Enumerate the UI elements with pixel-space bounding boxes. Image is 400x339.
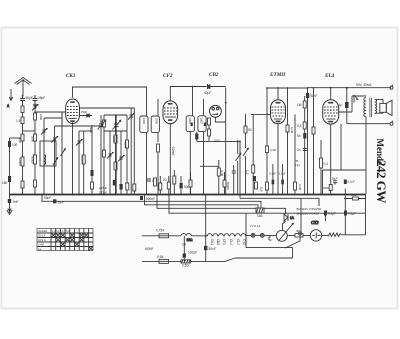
capacitor 100pF (8, 141, 18, 147)
svg-text:10000: 10000 (18, 158, 22, 166)
junction dots top (22, 86, 332, 237)
resistor m13 (133, 176, 136, 195)
svg-text:50000: 50000 (226, 182, 230, 190)
wire EFM11 down (277, 124, 279, 195)
tube CK1 (66, 73, 80, 124)
wire heater to lamps (246, 234, 276, 236)
capacitor c273 (272, 164, 275, 195)
fuse 0,5A (157, 255, 169, 263)
bus junction dots (22, 194, 332, 196)
svg-text:1M: 1M (297, 103, 302, 107)
connector 7AB (256, 208, 264, 218)
wire lower mains (142, 213, 293, 261)
242 GW model (374, 160, 389, 203)
svg-text:CK1: CK1 (66, 73, 76, 79)
capacitor dark m10 (99, 180, 116, 195)
svg-text:CL4: CL4 (236, 239, 240, 245)
svg-text:25pF: 25pF (81, 110, 87, 114)
band filter can left (40, 141, 56, 166)
variable cap gang 1 (98, 115, 106, 195)
svg-text:30000: 30000 (31, 156, 35, 164)
wire sub-bus 4 (169, 195, 366, 214)
resistor m21 (217, 160, 220, 195)
svg-text:0,2M: 0,2M (220, 170, 224, 177)
trimmer m8 (118, 156, 124, 162)
svg-text:37Ω: 37Ω (214, 139, 221, 143)
variable cap gang 2 (113, 115, 121, 195)
small lamp (269, 235, 272, 240)
capacitor 5nF dark (91, 170, 94, 176)
svg-text:252: 252 (352, 193, 357, 197)
label 12mA (171, 147, 175, 156)
svg-text:0,3: 0,3 (259, 187, 263, 192)
svg-text:EL4: EL4 (324, 73, 335, 79)
svg-text:TB: TB (295, 159, 299, 163)
resistor 1M at 304.7 (297, 96, 306, 195)
speaker (380, 99, 392, 115)
capacitor 0,1uF mid (204, 236, 216, 262)
svg-text:25pF: 25pF (38, 96, 45, 100)
svg-text:ETMII: ETMII (269, 72, 286, 78)
svg-text:50: 50 (163, 178, 167, 182)
wire vert 307.5 (307, 88, 309, 195)
trimmer m4 (107, 153, 113, 159)
capacitor 50pF antenna (20, 96, 33, 105)
fuse 0,75A (156, 229, 169, 238)
resistor 0,5 ohm lower (181, 260, 191, 268)
svg-text:90pF: 90pF (204, 91, 211, 95)
svg-text:1,75μF: 1,75μF (99, 191, 108, 195)
svg-text:1000: 1000 (200, 118, 204, 124)
wire left horizontals (10, 112, 93, 138)
resistor cluster m2 (103, 150, 106, 157)
svg-text:200Ω: 200Ω (323, 186, 330, 190)
capacitor c281 (281, 164, 284, 195)
rectifier CY2 (310, 220, 321, 241)
svg-text:1 2 3 4 5 6 7 8 9: 1 2 3 4 5 6 7 8 9 (52, 230, 70, 233)
svg-text:100: 100 (12, 143, 18, 147)
label 50nF on bus (44, 196, 155, 201)
terminal TA (299, 232, 302, 235)
resistor 0,1M beside CB2 (208, 118, 211, 125)
trimmer left3 (52, 137, 58, 143)
resistor 10000 a (21, 157, 24, 166)
switch near transformer (354, 95, 358, 103)
IF transformer 2 (186, 99, 206, 195)
output transformer (364, 98, 383, 170)
cathode resistor EL4 (320, 140, 329, 195)
wire TA diagonal (285, 198, 301, 248)
main ground bus (10, 194, 366, 196)
tube EFM11 (269, 72, 286, 124)
wire CF2 top loop with 90pF (170, 87, 225, 105)
resistor m17 (163, 176, 170, 195)
resistor 0,1 at 315 (312, 88, 315, 195)
wire rectifier column (240, 189, 345, 235)
label 60W (145, 247, 153, 251)
junction dot top right (346, 87, 348, 89)
antenna (15, 78, 32, 97)
resistor 252 top right (344, 180, 366, 201)
resistor r256 (255, 182, 258, 189)
resistor 50000 (82, 155, 85, 164)
mains text Bei 110V (297, 207, 322, 215)
svg-text:4,75μF: 4,75μF (99, 186, 108, 190)
svg-text:0,3: 0,3 (297, 124, 302, 128)
svg-text:L=49: L=49 (38, 243, 44, 247)
svg-text:180: 180 (2, 181, 8, 185)
wire vert 295 (294, 114, 296, 194)
capacitor dark m24 (253, 176, 256, 181)
resistor 1000 b (21, 181, 24, 188)
wire CB2 down (215, 88, 225, 195)
label 7V 0,1A (250, 224, 260, 228)
wire drop to mains transformer (205, 195, 207, 236)
capacitor m23 (232, 165, 236, 195)
svg-text:0,3M: 0,3M (270, 148, 277, 152)
wire can vertical 341 (340, 124, 342, 170)
capacitor C4 100uF (182, 236, 197, 262)
heater chain tube labels (210, 239, 246, 245)
wire under speaker (347, 123, 390, 125)
wire CK1 plate top loop (73, 87, 147, 104)
capacitor dark m19 (180, 176, 190, 195)
resistor 0,3M upper (266, 146, 277, 153)
resistor m15 (154, 178, 157, 186)
wire B+ feed (323, 170, 367, 195)
capacitor 90pF series (204, 84, 211, 95)
svg-text:90V, 30mA: 90V, 30mA (356, 83, 372, 87)
svg-text:1,5: 1,5 (16, 119, 21, 123)
terminal C top (390, 85, 393, 90)
tube CF2 (163, 73, 178, 124)
svg-text:1000: 1000 (101, 121, 105, 127)
capacitor 25pF (33, 95, 46, 107)
svg-text:0,1μF: 0,1μF (348, 212, 356, 216)
label 37ohm (214, 139, 221, 143)
pilot lamp 2 (260, 234, 264, 238)
capacitor 0,1u dark left (195, 132, 198, 142)
svg-text:5nF: 5nF (13, 200, 19, 204)
resistor at 295 (294, 182, 297, 190)
choke after CY2 (322, 233, 366, 237)
svg-text:2n: 2n (297, 148, 301, 152)
svg-text:50nF: 50nF (209, 247, 216, 251)
resistor m16 (159, 176, 162, 195)
value labels texture (18, 114, 302, 191)
capacitor 180pF (2, 176, 11, 185)
resistor 50ohm (244, 126, 252, 133)
wire ETM grid line (251, 114, 271, 194)
terminal C bottom (390, 121, 393, 126)
svg-text:242 GW: 242 GW (374, 160, 389, 203)
svg-text:0,5Ω: 0,5Ω (182, 263, 189, 267)
resistor cluster m5 (114, 135, 117, 143)
resistor 1000 d (34, 180, 37, 187)
svg-text:50000: 50000 (81, 156, 85, 164)
wire CF2 cathode down (169, 124, 171, 195)
capacitor bus blob 1 (53, 199, 64, 204)
capacitor 50nF dark at 304.7 (297, 133, 306, 139)
svg-text:1000: 1000 (154, 118, 158, 124)
svg-text:0,5A: 0,5A (157, 255, 164, 259)
svg-text:Vorwahl: Vorwahl (38, 229, 48, 233)
svg-text:50nF: 50nF (58, 201, 64, 205)
capacitor 25pF grid (80, 110, 93, 118)
svg-text:CY2: CY2 (311, 220, 318, 225)
svg-text:1000: 1000 (142, 118, 146, 124)
svg-text:CK1: CK1 (210, 239, 214, 245)
IF transformer 1 (140, 99, 160, 195)
antenna aux arrow A (7, 89, 13, 108)
trimmer cap left1 (32, 105, 38, 111)
svg-text:CF2: CF2 (163, 73, 173, 79)
resistor m12 (126, 183, 129, 190)
wire left verticals (10, 104, 93, 195)
resistor 200 at EL4 cathode (323, 185, 333, 191)
svg-text:16μF: 16μF (332, 177, 339, 181)
svg-text:Bei 220V V/140Ω: Bei 220V V/140Ω (297, 211, 320, 215)
fuse diode symbol (284, 214, 295, 221)
resistor 3000 (34, 134, 37, 141)
resistor 0,3M at 304.7 (297, 122, 306, 129)
switch arrow mid2 (236, 140, 241, 195)
resistor 1000 a (21, 134, 24, 141)
voltage table (37, 229, 93, 252)
pilot lamp 1 (251, 234, 255, 238)
wire vert 287.5 (287, 88, 289, 195)
tube CL4 (323, 73, 339, 124)
svg-text:CF2: CF2 (222, 239, 226, 245)
wire sub-bus 1 (42, 195, 261, 209)
wire AVC line (197, 141, 240, 194)
svg-text:50nF: 50nF (44, 196, 51, 200)
svg-text:12mA: 12mA (171, 147, 175, 156)
capacitor 0,1uF b (344, 211, 356, 216)
svg-text:50pF: 50pF (26, 96, 33, 100)
ground symbol (7, 195, 19, 215)
svg-text:50: 50 (248, 128, 252, 132)
svg-text:0,75A: 0,75A (156, 229, 165, 233)
svg-text:CB2: CB2 (216, 239, 220, 245)
wire diode drop (240, 195, 286, 231)
capacitor 16uF cathode (332, 177, 339, 185)
wire right edge drop (365, 194, 367, 235)
resistor 40 ohm (287, 229, 310, 237)
wire IFT1 right leg (157, 152, 159, 195)
capacitor 0,1uF a (324, 211, 336, 216)
resistor 1,2M (245, 165, 255, 175)
wire CL4 top (330, 88, 332, 100)
svg-text:3000: 3000 (31, 136, 35, 142)
svg-text:4,5μ: 4,5μ (295, 163, 301, 167)
wire CL4 plate to transformer (339, 96, 366, 112)
wire avc extras (200, 165, 219, 167)
wire vert 267 (266, 88, 268, 195)
electrolytic cap right (338, 88, 349, 124)
resistor 1000 c (34, 113, 37, 120)
wire mid cluster verticals (92, 115, 127, 195)
wire sub-bus 3 (157, 195, 286, 215)
svg-text:0,4: 0,4 (324, 162, 329, 166)
resistor m20 (189, 172, 192, 195)
resistor 1nF (91, 182, 94, 189)
resistor cluster m1 (103, 120, 106, 127)
wire CK1 cathode down (72, 122, 74, 194)
trimmer left4 (76, 140, 82, 146)
resistor cluster m6 (114, 162, 117, 170)
coil left (44, 155, 46, 165)
resistor m18 (173, 170, 176, 195)
resistor below CB2 (208, 125, 211, 141)
svg-text:500nF: 500nF (146, 197, 155, 201)
capacitor 2nF at 304.7 (297, 148, 307, 152)
resistor 30000 (34, 155, 37, 164)
svg-text:7V 0,1A: 7V 0,1A (250, 224, 260, 228)
capacitor m14 (147, 179, 156, 183)
svg-text:5n: 5n (297, 134, 301, 138)
svg-text:CY2: CY2 (242, 239, 246, 245)
switch arrow left2 (61, 149, 66, 156)
svg-text:5000: 5000 (89, 127, 93, 133)
svg-text:1000: 1000 (39, 114, 43, 120)
wire CL4 down (330, 124, 332, 194)
resistor m22 (223, 172, 226, 195)
trimmer left2 (41, 129, 47, 135)
svg-text:1,2: 1,2 (245, 170, 249, 175)
svg-text:0,1M: 0,1M (290, 127, 294, 134)
svg-text:0,1μF: 0,1μF (348, 180, 356, 184)
wire sub-bus 2 (145, 195, 259, 209)
terminal TB label (295, 159, 301, 167)
resistor cluster m9 (126, 140, 129, 148)
cap labels (269, 172, 286, 176)
label 90V 30mA (356, 83, 372, 87)
svg-text:60W: 60W (145, 247, 153, 251)
svg-text:5000: 5000 (123, 142, 127, 148)
svg-text:100μF: 100μF (188, 251, 197, 255)
resistor 100 (21, 106, 24, 113)
heater circuit wire left (142, 235, 207, 237)
svg-text:44,9 m: 44,9 m (38, 238, 46, 242)
switch arrow mid1 (243, 114, 248, 195)
svg-text:1000: 1000 (18, 137, 22, 143)
svg-text:1000: 1000 (188, 118, 192, 124)
svg-text:0,3M: 0,3M (298, 184, 302, 191)
choke 102 (181, 234, 193, 242)
wire mid link (79, 108, 134, 176)
svg-text:1000: 1000 (112, 136, 116, 142)
capacitor dark m11 (120, 184, 123, 190)
wire EFM11 top (277, 88, 279, 100)
svg-text:20-1,4: 20-1,4 (38, 234, 46, 238)
Mende brand (375, 139, 385, 166)
barretter (276, 223, 293, 241)
capacitor bus blob 2 (140, 196, 143, 200)
svg-text:0,1μF: 0,1μF (328, 212, 336, 216)
resistor under IFT1 (157, 144, 160, 152)
resistor at 287.5 (286, 125, 289, 132)
svg-text:7AB: 7AB (257, 214, 263, 218)
svg-text:CL4: CL4 (229, 239, 233, 245)
resistor 1,5 (16, 117, 24, 124)
capacitor 50nF right of EFM11 (306, 93, 317, 98)
switch arrow left1 (53, 158, 58, 165)
resistor 0,3M (259, 182, 269, 192)
trimmer IFT1 (128, 108, 134, 195)
heater chain windings (207, 234, 246, 236)
wire top bus right (267, 87, 391, 89)
tube CB2 top view (209, 72, 221, 117)
junction dots bus (34, 194, 322, 196)
svg-text:10Ω: 10Ω (187, 238, 194, 242)
svg-text:CB2: CB2 (209, 72, 219, 78)
svg-text:4μ: 4μ (338, 103, 342, 107)
